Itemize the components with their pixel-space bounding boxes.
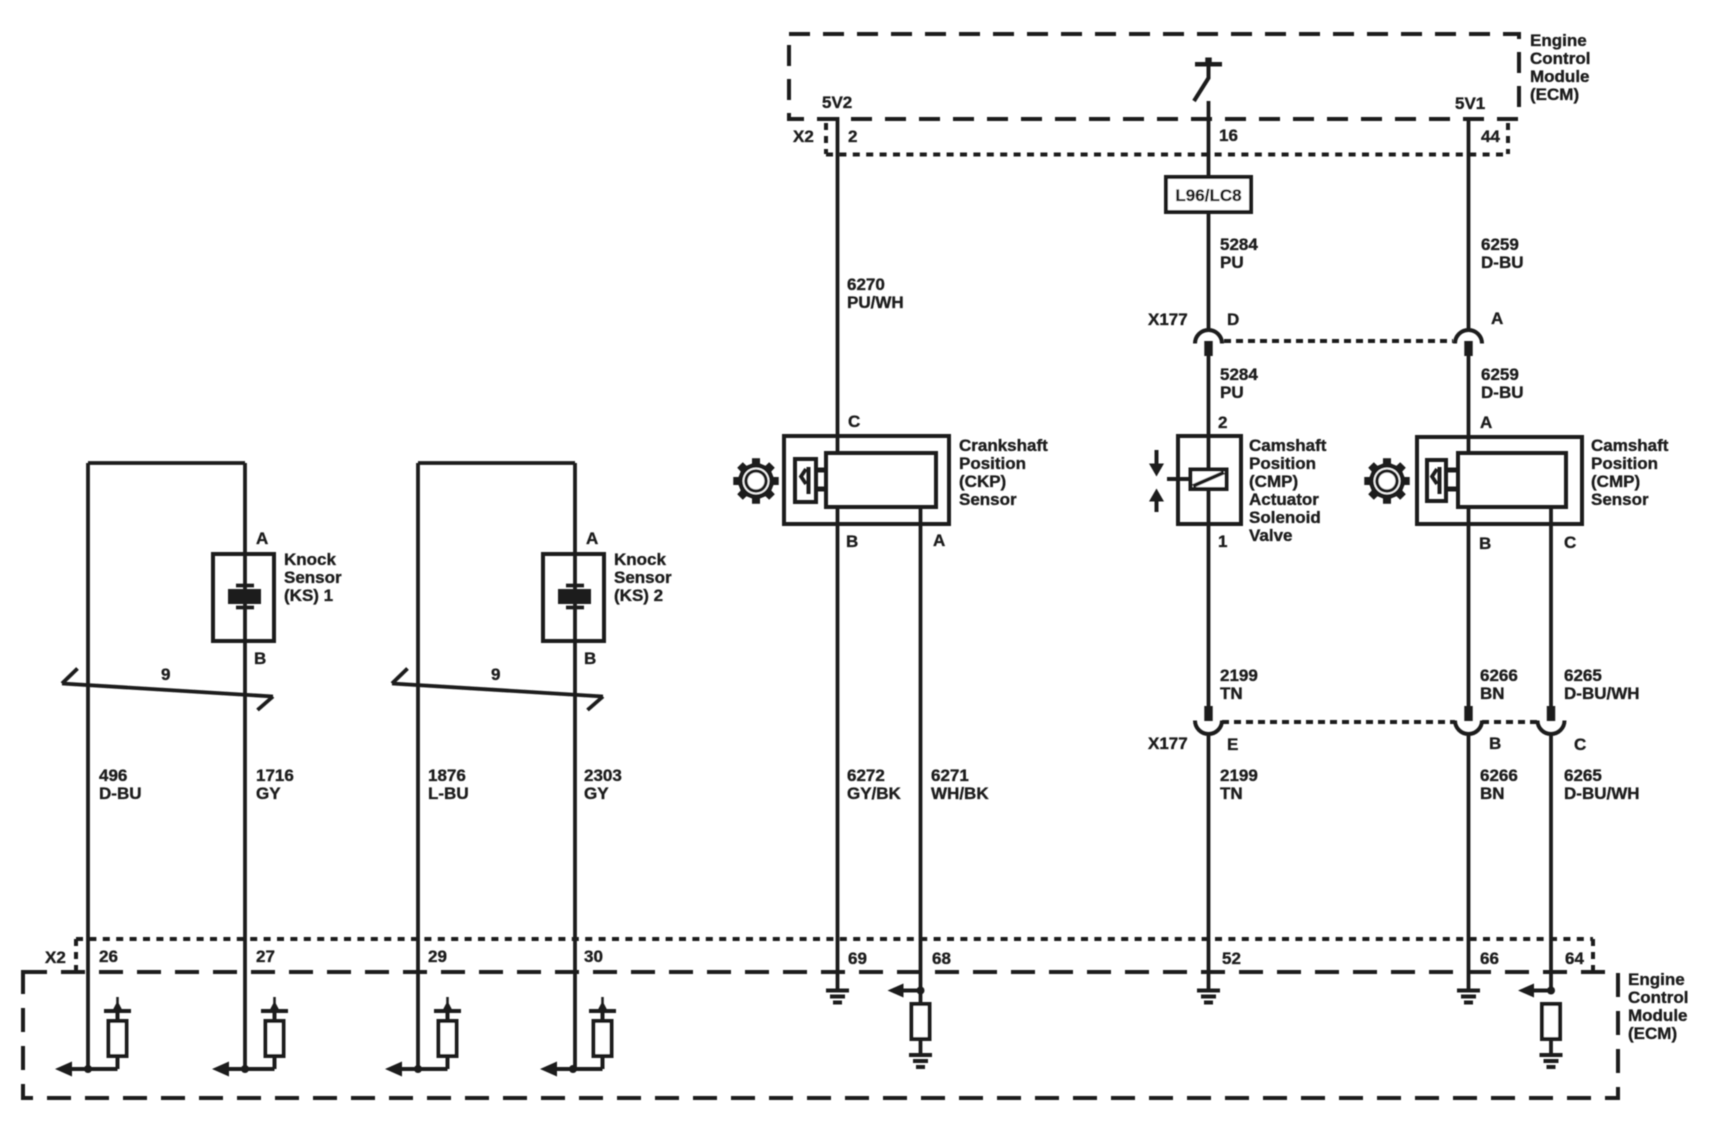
svg-text:Sensor: Sensor: [284, 568, 342, 587]
svg-text:Knock: Knock: [284, 550, 337, 569]
svg-text:X177: X177: [1148, 310, 1188, 329]
svg-text:(KS) 1: (KS) 1: [284, 586, 333, 605]
svg-text:Actuator: Actuator: [1249, 490, 1319, 509]
svg-text:TN: TN: [1220, 684, 1243, 703]
svg-text:44: 44: [1481, 127, 1500, 146]
svg-text:1: 1: [1218, 532, 1227, 551]
svg-text:X2: X2: [45, 948, 66, 967]
svg-text:D-BU: D-BU: [1481, 253, 1524, 272]
svg-text:Module: Module: [1628, 1006, 1688, 1025]
svg-text:2199: 2199: [1220, 766, 1258, 785]
svg-text:Camshaft: Camshaft: [1591, 436, 1669, 455]
svg-text:E: E: [1227, 735, 1238, 754]
svg-text:2: 2: [1218, 413, 1227, 432]
svg-text:2: 2: [848, 127, 857, 146]
svg-text:(CMP): (CMP): [1249, 472, 1298, 491]
svg-text:B: B: [254, 649, 266, 668]
svg-text:PU: PU: [1220, 383, 1244, 402]
svg-text:Position: Position: [1591, 454, 1658, 473]
svg-text:C: C: [1574, 735, 1586, 754]
svg-text:6259: 6259: [1481, 365, 1519, 384]
svg-text:6270: 6270: [847, 275, 885, 294]
svg-text:PU/WH: PU/WH: [847, 293, 904, 312]
svg-text:2199: 2199: [1220, 666, 1258, 685]
svg-text:L-BU: L-BU: [428, 784, 469, 803]
svg-text:D-BU/WH: D-BU/WH: [1564, 784, 1640, 803]
svg-text:5284: 5284: [1220, 235, 1258, 254]
svg-text:2303: 2303: [584, 766, 622, 785]
svg-text:(CKP): (CKP): [959, 472, 1006, 491]
svg-text:B: B: [846, 532, 858, 551]
svg-text:64: 64: [1565, 949, 1584, 968]
svg-text:26: 26: [99, 947, 118, 966]
svg-text:B: B: [1489, 734, 1501, 753]
svg-text:16: 16: [1219, 126, 1238, 145]
svg-text:6266: 6266: [1480, 766, 1518, 785]
svg-text:68: 68: [932, 949, 951, 968]
svg-text:X2: X2: [793, 127, 814, 146]
svg-text:TN: TN: [1220, 784, 1243, 803]
svg-text:Sensor: Sensor: [1591, 490, 1649, 509]
svg-text:Sensor: Sensor: [959, 490, 1017, 509]
svg-text:6271: 6271: [931, 766, 969, 785]
svg-text:Crankshaft: Crankshaft: [959, 436, 1048, 455]
svg-text:GY: GY: [256, 784, 281, 803]
svg-text:66: 66: [1480, 949, 1499, 968]
svg-text:D-BU: D-BU: [1481, 383, 1524, 402]
svg-text:Control: Control: [1530, 49, 1590, 68]
svg-text:BN: BN: [1480, 784, 1505, 803]
svg-text:D-BU/WH: D-BU/WH: [1564, 684, 1640, 703]
svg-text:A: A: [586, 529, 598, 548]
svg-text:6265: 6265: [1564, 766, 1602, 785]
svg-text:PU: PU: [1220, 253, 1244, 272]
svg-text:(CMP): (CMP): [1591, 472, 1640, 491]
svg-text:5V2: 5V2: [822, 93, 852, 112]
svg-text:X177: X177: [1148, 734, 1188, 753]
svg-text:6266: 6266: [1480, 666, 1518, 685]
svg-text:GY/BK: GY/BK: [847, 784, 902, 803]
svg-text:29: 29: [428, 947, 447, 966]
svg-text:A: A: [1480, 413, 1492, 432]
svg-text:9: 9: [161, 665, 170, 684]
svg-text:5284: 5284: [1220, 365, 1258, 384]
svg-text:6259: 6259: [1481, 235, 1519, 254]
svg-text:5V1: 5V1: [1455, 94, 1485, 113]
svg-text:Module: Module: [1530, 67, 1590, 86]
svg-text:1876: 1876: [428, 766, 466, 785]
svg-text:Camshaft: Camshaft: [1249, 436, 1327, 455]
svg-text:Control: Control: [1628, 988, 1688, 1007]
svg-text:C: C: [848, 412, 860, 431]
svg-text:D: D: [1227, 310, 1239, 329]
svg-text:Position: Position: [959, 454, 1026, 473]
svg-text:A: A: [1491, 309, 1503, 328]
svg-text:9: 9: [491, 665, 500, 684]
svg-text:BN: BN: [1480, 684, 1505, 703]
svg-text:27: 27: [256, 947, 275, 966]
svg-text:Sensor: Sensor: [614, 568, 672, 587]
svg-text:B: B: [584, 649, 596, 668]
svg-text:B: B: [1479, 534, 1491, 553]
svg-text:Position: Position: [1249, 454, 1316, 473]
svg-text:30: 30: [584, 947, 603, 966]
svg-text:6265: 6265: [1564, 666, 1602, 685]
svg-text:Engine: Engine: [1628, 970, 1685, 989]
svg-text:Knock: Knock: [614, 550, 667, 569]
svg-text:Valve: Valve: [1249, 526, 1293, 545]
svg-text:L96/LC8: L96/LC8: [1175, 186, 1241, 205]
svg-text:(ECM): (ECM): [1628, 1024, 1677, 1043]
svg-text:1716: 1716: [256, 766, 294, 785]
svg-text:6272: 6272: [847, 766, 885, 785]
svg-text:A: A: [933, 531, 945, 550]
svg-text:496: 496: [99, 766, 127, 785]
svg-text:(KS) 2: (KS) 2: [614, 586, 663, 605]
svg-text:C: C: [1564, 533, 1576, 552]
svg-text:69: 69: [848, 949, 867, 968]
svg-text:52: 52: [1222, 949, 1241, 968]
svg-text:GY: GY: [584, 784, 609, 803]
svg-text:D-BU: D-BU: [99, 784, 142, 803]
svg-text:(ECM): (ECM): [1530, 85, 1579, 104]
svg-text:Engine: Engine: [1530, 31, 1587, 50]
svg-text:A: A: [256, 529, 268, 548]
svg-text:Solenoid: Solenoid: [1249, 508, 1321, 527]
svg-text:WH/BK: WH/BK: [931, 784, 989, 803]
